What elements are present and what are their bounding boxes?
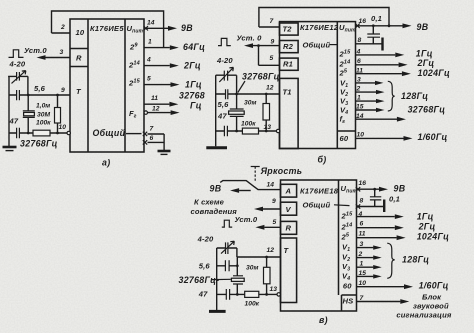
svg-text:8: 8 — [358, 37, 362, 44]
svg-text:1024Гц: 1024Гц — [417, 231, 449, 241]
svg-text:30М: 30М — [37, 112, 50, 119]
svg-text:К176ИЕ18: К176ИЕ18 — [300, 187, 339, 196]
svg-text:11: 11 — [151, 95, 158, 102]
svg-text:А: А — [285, 187, 292, 196]
svg-text:1: 1 — [357, 95, 361, 102]
svg-text:0,1: 0,1 — [389, 195, 400, 204]
svg-text:6: 6 — [150, 135, 154, 142]
svg-text:R: R — [286, 224, 292, 233]
svg-text:10: 10 — [59, 124, 67, 131]
svg-text:3: 3 — [360, 241, 364, 248]
svg-text:HS: HS — [343, 296, 354, 305]
svg-text:4: 4 — [146, 57, 151, 64]
svg-text:9В: 9В — [210, 184, 222, 194]
svg-text:V: V — [286, 205, 292, 214]
svg-text:1Гц: 1Гц — [417, 211, 434, 221]
svg-text:32768: 32768 — [179, 91, 205, 101]
svg-text:60: 60 — [343, 281, 352, 290]
svg-text:R: R — [76, 54, 82, 63]
svg-text:16: 16 — [359, 180, 367, 187]
svg-text:Уст.0: Уст.0 — [24, 46, 47, 55]
svg-text:Уст.0: Уст.0 — [235, 215, 258, 224]
svg-text:32768Гц: 32768Гц — [20, 139, 58, 149]
svg-text:14: 14 — [147, 20, 155, 27]
svg-text:2Гц: 2Гц — [183, 61, 201, 71]
svg-text:30м: 30м — [246, 265, 258, 272]
svg-text:16: 16 — [359, 18, 367, 25]
svg-text:5,6: 5,6 — [218, 100, 230, 109]
svg-text:128Гц: 128Гц — [401, 91, 428, 101]
svg-text:Т2: Т2 — [283, 25, 293, 34]
svg-text:1024Гц: 1024Гц — [418, 68, 450, 78]
svg-text:2Гц: 2Гц — [418, 221, 436, 231]
svg-text:4: 4 — [358, 211, 363, 218]
svg-text:Общий: Общий — [303, 201, 331, 210]
svg-text:3: 3 — [60, 49, 64, 56]
svg-text:R2: R2 — [283, 42, 294, 51]
svg-text:К176ИЕ12: К176ИЕ12 — [300, 23, 339, 32]
svg-text:2: 2 — [356, 86, 361, 93]
svg-text:7: 7 — [150, 126, 154, 133]
svg-text:32768Гц: 32768Гц — [242, 72, 280, 82]
svg-text:1/60Гц: 1/60Гц — [418, 132, 448, 142]
svg-text:3: 3 — [357, 77, 361, 84]
svg-text:1Гц: 1Гц — [416, 49, 433, 59]
svg-text:2: 2 — [60, 24, 65, 31]
svg-text:2: 2 — [358, 251, 363, 258]
svg-text:7: 7 — [360, 295, 364, 302]
svg-text:б): б) — [318, 155, 327, 165]
svg-text:12: 12 — [152, 106, 160, 113]
svg-text:9: 9 — [272, 198, 276, 205]
svg-text:12: 12 — [266, 85, 274, 92]
svg-text:15: 15 — [356, 104, 364, 111]
svg-text:30м: 30м — [244, 100, 256, 107]
svg-text:R1: R1 — [283, 60, 293, 69]
svg-text:47: 47 — [217, 111, 227, 120]
svg-text:Блок: Блок — [422, 292, 442, 301]
svg-text:14: 14 — [356, 113, 364, 120]
svg-text:100к: 100к — [241, 121, 256, 128]
svg-text:47: 47 — [9, 117, 19, 126]
svg-text:13: 13 — [264, 124, 272, 131]
svg-text:К176ИЕ5: К176ИЕ5 — [90, 24, 124, 33]
svg-text:10: 10 — [76, 28, 85, 37]
svg-text:9В: 9В — [181, 23, 193, 33]
svg-text:100к: 100к — [245, 300, 260, 307]
svg-text:11: 11 — [359, 231, 366, 238]
svg-text:К схеме: К схеме — [194, 198, 225, 207]
svg-text:6: 6 — [360, 221, 364, 228]
svg-text:а): а) — [102, 158, 110, 168]
svg-text:8: 8 — [360, 198, 364, 205]
svg-text:47: 47 — [198, 290, 208, 299]
svg-text:64Гц: 64Гц — [183, 42, 205, 52]
svg-text:1,0м: 1,0м — [36, 103, 50, 110]
svg-text:60: 60 — [340, 134, 349, 143]
svg-text:10: 10 — [357, 132, 365, 139]
svg-text:1: 1 — [148, 39, 152, 46]
svg-text:Общий: Общий — [303, 40, 331, 49]
svg-text:Общий: Общий — [93, 128, 126, 138]
svg-text:совпадения: совпадения — [191, 207, 238, 216]
svg-text:сигнализация: сигнализация — [396, 311, 451, 320]
svg-text:7: 7 — [270, 18, 274, 25]
svg-text:5,6: 5,6 — [199, 261, 211, 270]
svg-text:9: 9 — [61, 87, 65, 94]
svg-text:4-20: 4-20 — [197, 235, 214, 244]
svg-text:9В: 9В — [394, 183, 406, 193]
svg-text:5,6: 5,6 — [34, 84, 46, 93]
svg-text:Уст. 0: Уст. 0 — [237, 34, 263, 43]
svg-text:4-20: 4-20 — [9, 60, 26, 69]
svg-text:9: 9 — [271, 39, 275, 46]
svg-text:Яркость: Яркость — [260, 166, 303, 176]
svg-text:Гц: Гц — [190, 101, 202, 111]
svg-text:15: 15 — [359, 270, 367, 277]
svg-text:10: 10 — [359, 280, 367, 287]
svg-text:4-20: 4-20 — [216, 56, 233, 65]
svg-text:0,1: 0,1 — [371, 14, 382, 23]
svg-text:32768Гц-: 32768Гц- — [179, 275, 220, 285]
svg-text:5: 5 — [147, 76, 151, 83]
svg-text:6: 6 — [357, 58, 361, 65]
svg-text:128Гц: 128Гц — [402, 255, 429, 265]
svg-text:5: 5 — [273, 219, 277, 226]
svg-text:звуковой: звуковой — [413, 302, 449, 311]
svg-text:11: 11 — [356, 67, 363, 74]
svg-text:в): в) — [319, 315, 328, 325]
svg-text:1: 1 — [360, 261, 364, 268]
svg-text:1/60Гц: 1/60Гц — [419, 280, 449, 290]
svg-text:2Гц: 2Гц — [417, 58, 435, 68]
svg-text:100к: 100к — [36, 120, 51, 127]
svg-text:Т1: Т1 — [283, 88, 292, 97]
svg-text:32768Гц: 32768Гц — [408, 105, 446, 115]
svg-text:9В: 9В — [417, 22, 429, 32]
svg-text:13: 13 — [270, 286, 278, 293]
svg-text:4: 4 — [356, 49, 361, 56]
svg-text:5: 5 — [270, 55, 274, 62]
svg-text:12: 12 — [267, 247, 275, 254]
svg-text:1Гц: 1Гц — [185, 80, 202, 90]
svg-text:14: 14 — [267, 182, 275, 189]
